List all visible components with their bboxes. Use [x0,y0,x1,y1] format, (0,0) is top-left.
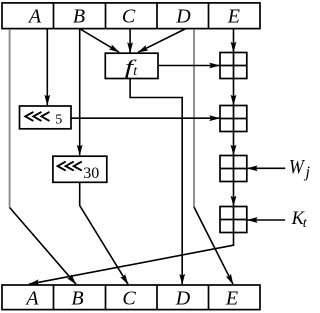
svg-text:D: D [175,5,191,27]
svg-text:W: W [289,156,306,178]
svg-text:B: B [71,287,83,309]
svg-text:A: A [27,5,42,27]
svg-text:t: t [133,64,138,79]
svg-text:E: E [227,5,240,27]
svg-text:B: B [73,5,85,27]
svg-text:30: 30 [83,165,99,182]
svg-text:5: 5 [55,113,62,128]
svg-text:t: t [303,216,308,231]
svg-text:C: C [122,5,136,27]
svg-text:E: E [225,287,238,309]
svg-text:A: A [24,287,39,309]
svg-text:C: C [122,287,136,309]
svg-text:D: D [175,287,191,309]
svg-text:j: j [304,164,311,181]
